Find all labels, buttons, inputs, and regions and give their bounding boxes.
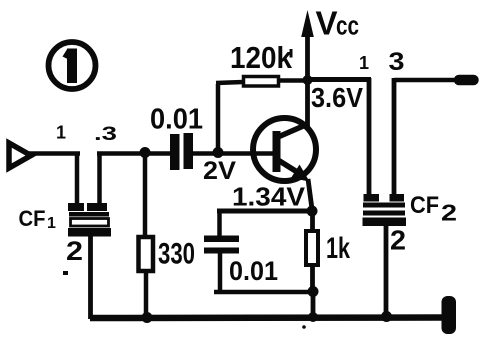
- svg-text:.3: .3: [94, 124, 117, 145]
- svg-text:2: 2: [66, 236, 83, 266]
- svg-text:1: 1: [47, 215, 56, 232]
- coupling capacitor C 0.01 plates: [170, 133, 193, 170]
- wire: bypass cap to bottom of loop: [218, 253, 223, 294]
- wire: CF1 pin 3 drop: [97, 153, 102, 204]
- wire: emitter node to 1k: [310, 213, 315, 232]
- junction: base of 330 resistor branch: [140, 147, 151, 158]
- svg-text:3.6V: 3.6V: [311, 82, 363, 113]
- wire: CF2 pin 1 drop: [367, 78, 372, 196]
- svg-text:CF: CF: [19, 206, 46, 231]
- junction: 1k / bypass cap bottom: [308, 286, 319, 297]
- wire: 1k bottom lead: [310, 264, 315, 293]
- label Vcc: [316, 5, 360, 42]
- figure number badge (circled 1): [49, 42, 96, 89]
- svg-text:120k: 120k: [230, 40, 293, 75]
- wire: emitter exit to emitter node: [308, 179, 312, 209]
- output arrow (thick stub): [459, 75, 474, 86]
- wire: CF2 pin 3 to output: [394, 78, 455, 83]
- svg-text:0.01: 0.01: [150, 104, 203, 136]
- wire: right lead of 120k to Vcc rail: [278, 78, 309, 83]
- svg-text:1: 1: [56, 123, 66, 143]
- svg-text:V: V: [316, 5, 338, 42]
- transistor Q1 (NPN): [253, 118, 316, 182]
- svg-text:330: 330: [158, 238, 195, 271]
- wire: left lead of 120k: [216, 82, 243, 83]
- wire: CF2 pin 3 drop: [392, 78, 397, 196]
- junction: emitter node: [307, 206, 318, 217]
- label CF2: [410, 192, 457, 226]
- svg-text:3: 3: [389, 48, 405, 76]
- ground electrode: [442, 296, 457, 334]
- resistor 330 top lead: [143, 152, 148, 237]
- wire: CF1 pin 2 to ground bus: [88, 236, 93, 319]
- resistor 330 body: [139, 237, 154, 271]
- wire: CF2 pin 2 to ground bus: [384, 226, 389, 317]
- junction: collector node: [303, 75, 313, 85]
- input arrow (signal source): [9, 143, 31, 168]
- junction: base bias node: [213, 147, 224, 158]
- wire: bottom of bypass loop: [214, 290, 313, 295]
- wire: input to CF1 pin 1: [29, 151, 80, 156]
- wire: 1k bottom to ground bus: [311, 292, 316, 318]
- ground bus: [90, 314, 444, 321]
- wire: CF1 pin 3 to coupling cap: [97, 151, 170, 156]
- svg-text:1: 1: [359, 53, 369, 73]
- wire: emitter node to bypass cap (top of loop): [217, 209, 312, 214]
- resistor 120k body: [244, 77, 279, 87]
- wire: 330 bottom to ground bus: [144, 270, 149, 318]
- label CF1: [19, 206, 57, 232]
- svg-text:2: 2: [390, 225, 406, 256]
- svg-text:CF: CF: [410, 192, 439, 219]
- wire: bias node up to 120k: [216, 84, 221, 152]
- wire: collector node to CF2 pin 1: [308, 77, 371, 82]
- svg-text:cc: cc: [336, 11, 359, 41]
- bypass capacitor 0.01 plates: [204, 236, 239, 254]
- svg-text:0.01: 0.01: [229, 256, 278, 286]
- wire: bypass loop left drop: [217, 209, 222, 237]
- junction: CF2 ground: [381, 311, 392, 322]
- resistor 1k body: [306, 231, 318, 265]
- scan speck below bus: [302, 325, 306, 329]
- Vcc arrow: [301, 10, 314, 37]
- svg-text:1.34V: 1.34V: [232, 182, 306, 212]
- junction: 330 ground: [142, 312, 153, 323]
- Vcc rail (vertical): [305, 20, 310, 126]
- wire: CF1 pin 1 drop: [75, 153, 80, 204]
- svg-text:2: 2: [441, 200, 457, 226]
- junction: 1k ground: [308, 312, 318, 322]
- scan speck near CF1 lead: [63, 271, 68, 275]
- svg-text:1k: 1k: [326, 232, 350, 265]
- ceramic filter CF1 body: [68, 203, 111, 237]
- wire: coupling cap to base node: [193, 151, 275, 156]
- ceramic filter CF2 body: [363, 194, 407, 226]
- scan speck near Vcc: [290, 49, 293, 58]
